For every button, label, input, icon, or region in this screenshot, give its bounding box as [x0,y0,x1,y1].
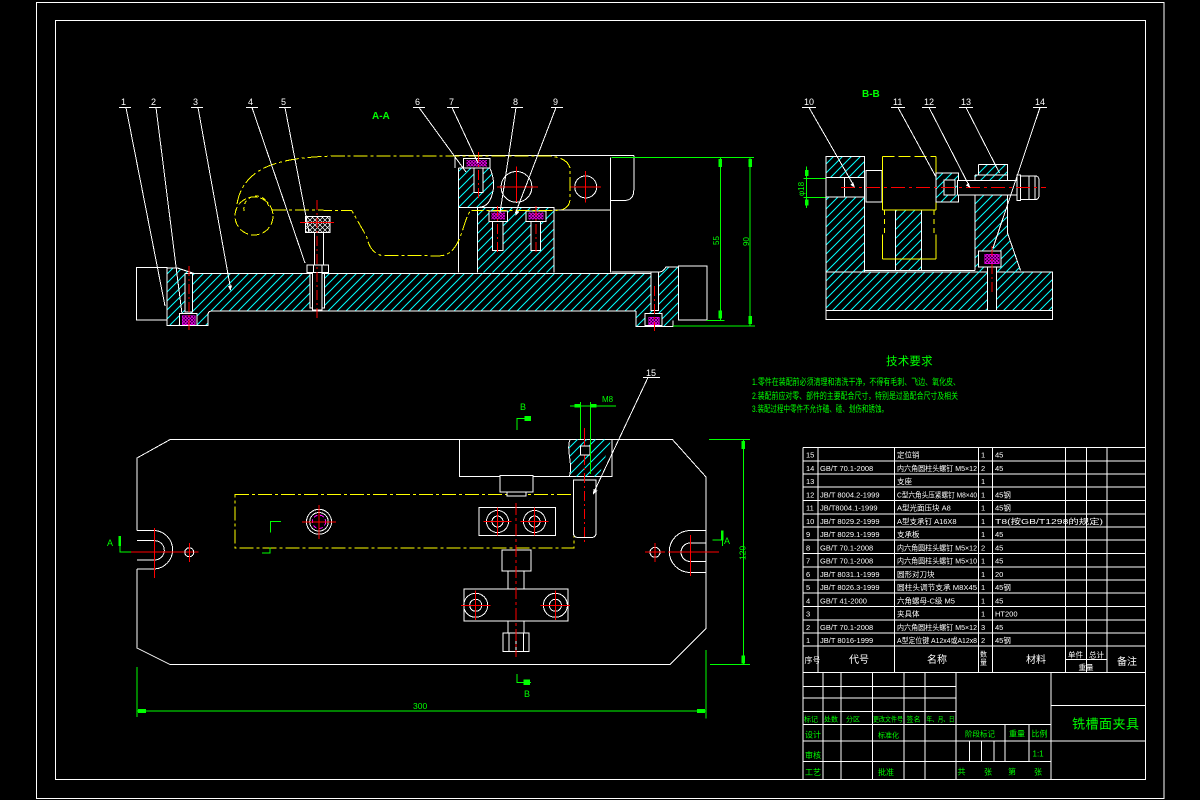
svg-text:重量: 重量 [1009,729,1025,739]
BOM row item 11 [806,503,1011,513]
svg-text:内六角圆柱头螺钉 M5×12: 内六角圆柱头螺钉 M5×12 [897,622,977,632]
svg-text:45钢: 45钢 [995,489,1011,499]
svg-text:JB/T8004.1-1999: JB/T8004.1-1999 [820,504,878,513]
svg-text:55: 55 [712,236,721,245]
svg-text:工艺: 工艺 [805,768,821,777]
callout 3 [191,97,232,291]
clamp screw column bar [574,480,597,538]
svg-text:签名: 签名 [907,715,921,724]
svg-text:单件: 单件 [1068,650,1084,660]
svg-text:重量: 重量 [1079,663,1095,672]
svg-text:10: 10 [804,97,814,107]
svg-text:B-B: B-B [862,89,880,100]
central support block outline [895,210,921,270]
BOM row item 13 [806,476,985,486]
svg-text:5: 5 [281,97,286,107]
svg-text:JB/T 8026.3-1999: JB/T 8026.3-1999 [820,583,880,592]
cap screw shank [474,168,483,193]
clamp centerline vertical [515,503,517,657]
column bolt 1 head [489,211,507,222]
svg-text:1: 1 [981,557,985,566]
knurled knob plan [503,633,529,652]
section B red trace [584,428,586,452]
column bar hole [580,446,590,455]
BOM row item 9 [806,529,1003,539]
cap screw head [464,158,490,168]
small bolt shank channel [988,267,997,310]
small bolt box right wall [978,251,1001,267]
locating circle 1 [501,172,532,203]
adjustable support centerline [316,200,318,318]
svg-text:内六角圆柱头螺钉 M5×12: 内六角圆柱头螺钉 M5×12 [897,463,977,473]
svg-text:2: 2 [151,97,156,107]
left foot bolt hole [185,273,192,312]
svg-text:A: A [724,536,730,546]
svg-text:2: 2 [981,464,985,473]
callout 11 [891,97,936,177]
svg-text:1: 1 [981,597,985,606]
callout 8 [500,97,523,213]
svg-text:JB/T 8031.1-1999: JB/T 8031.1-1999 [820,570,880,579]
support block hatch [458,168,493,207]
svg-text:GB/T 70.1-2008: GB/T 70.1-2008 [820,464,873,473]
right hex nut magenta [649,317,660,325]
svg-text:铣槽面夹具: 铣槽面夹具 [1072,717,1140,732]
svg-text:15: 15 [646,368,656,378]
svg-text:材料: 材料 [1026,653,1046,666]
right wall outline [975,165,1021,271]
hole divider line [844,178,846,198]
svg-text:120: 120 [738,546,748,560]
svg-text:序号: 序号 [805,655,821,665]
svg-text:支承板: 支承板 [897,529,920,539]
BOM grid vertical lines [803,448,1107,673]
right wall hatch [975,165,1021,272]
title block grid [803,673,1145,780]
svg-text:A-A: A-A [372,111,390,122]
svg-text:3.装配过程中零件不允许磕、碰、划伤和锈蚀。: 3.装配过程中零件不允许磕、碰、划伤和锈蚀。 [752,403,888,414]
lower stem [508,621,524,633]
svg-text:名称: 名称 [927,653,947,666]
nut on shaft hatched [936,173,959,202]
svg-text:2.装配前应对零、部件的主要配合尺寸，特别是过盈配合尺寸及相: 2.装配前应对零、部件的主要配合尺寸，特别是过盈配合尺寸及相关 [752,390,958,401]
TITLE BLOCK [803,673,1145,780]
clamp bar screw 1 [484,508,512,536]
adjustable support screw shank lower [313,272,322,310]
clamp plate top line [455,155,634,272]
svg-text:夹具体: 夹具体 [897,609,920,619]
right U-notch inner slot [681,543,706,562]
support block outline [458,168,610,273]
fixture base bottom band [826,310,1053,319]
svg-text:1: 1 [981,517,985,526]
svg-text:GB/T 70.1-2008: GB/T 70.1-2008 [820,544,873,553]
section A mark left [107,536,131,552]
dim M8 ext lines [580,402,590,474]
svg-text:A型定位键 A12x4或A12x8: A型定位键 A12x4或A12x8 [897,635,977,645]
svg-text:审核: 审核 [805,750,821,760]
svg-text:张: 张 [984,768,992,777]
svg-text:8: 8 [806,544,810,553]
left wall shaft hole [826,178,865,198]
svg-text:2: 2 [981,544,985,553]
adjustable support knob [306,217,331,233]
svg-text:圆柱头调节支承 M8X45: 圆柱头调节支承 M8X45 [897,582,977,592]
dim extension top green [612,157,754,159]
callout 13 [959,97,1000,173]
svg-text:12: 12 [924,97,934,107]
BOM TABLE [803,448,1145,673]
svg-text:14: 14 [1035,97,1045,107]
svg-text:JB/T 8016-1999: JB/T 8016-1999 [820,636,873,645]
svg-text:张: 张 [1034,768,1042,777]
clamp bar [479,508,556,536]
svg-text:1: 1 [806,636,810,645]
left notch centerlines [120,528,199,578]
svg-text:更改文件号: 更改文件号 [873,715,903,724]
callout 7 [447,97,478,163]
SECTION A-A VIEW [119,97,755,331]
svg-text:6: 6 [415,97,420,107]
left counterbore [180,313,198,325]
right small hole [645,543,665,562]
svg-text:第: 第 [1008,767,1016,777]
svg-text:2: 2 [806,623,810,632]
svg-text:技术要求: 技术要求 [886,355,933,368]
dim 120 ext lines [709,440,750,665]
section A mark right [713,531,730,546]
svg-text:A型支承钉 A16X8: A型支承钉 A16X8 [897,516,957,526]
title block left labels [805,730,899,778]
callout 10 [802,97,855,188]
svg-text:定位销: 定位销 [897,450,920,460]
dim 300 line [137,709,706,713]
slot bottom line [865,269,976,271]
svg-text:六角螺母-C级 M5: 六角螺母-C级 M5 [897,596,955,606]
svg-text:1: 1 [981,490,985,499]
svg-text:7: 7 [449,97,454,107]
svg-text:45: 45 [995,623,1003,632]
locating circle 2 [575,176,597,198]
svg-text:3: 3 [981,623,985,632]
svg-text:1:1: 1:1 [1033,750,1045,759]
left bolt centerline [188,266,190,331]
svg-text:1.零件在装配前必须清理和清洗干净，不得有毛刺、飞边、氧化皮: 1.零件在装配前必须清理和清洗干净，不得有毛刺、飞边、氧化皮、 [752,376,960,387]
svg-text:B: B [524,689,530,699]
svg-text:2: 2 [981,636,985,645]
callout 4 [246,97,305,263]
callout 14 [993,97,1047,248]
callout 5 [279,97,309,232]
right slot bolt channel [651,272,658,311]
TECH REQUIREMENTS [752,355,960,414]
left U-notch outer [137,531,173,575]
svg-text:6: 6 [806,570,810,579]
support column hatch [478,207,554,272]
BOM header row [803,660,1145,673]
dim line right 2 [748,158,752,326]
svg-text:1: 1 [981,610,985,619]
svg-text:年、月、日: 年、月、日 [927,715,955,724]
svg-text:总计: 总计 [1089,650,1105,660]
dim M8 line [570,404,616,408]
column bolt 2 shank [531,221,541,250]
nut inner box [944,180,955,195]
adjustable support shaft [314,233,323,265]
section bend bracket 1 [271,522,281,533]
dim line right 1 [719,158,723,321]
workpiece top profile [237,156,570,211]
svg-text:11: 11 [893,97,902,107]
fixture base hatch [826,272,1053,310]
left wall outline [826,157,865,272]
callout 12 [922,97,971,188]
svg-text:8: 8 [513,97,518,107]
svg-text:45: 45 [995,530,1003,539]
right notch centerlines [668,535,719,576]
workpiece yellow lower box BB [885,210,935,234]
title block middle labels [958,729,1048,777]
svg-text:JB/T 8029.1-1999: JB/T 8029.1-1999 [820,530,880,539]
BOM row item 10 [806,516,1104,526]
svg-text:12: 12 [806,490,814,499]
svg-text:比例: 比例 [1032,729,1048,739]
base plate outline [167,267,679,327]
svg-text:11: 11 [806,504,814,513]
svg-text:13: 13 [806,477,814,486]
svg-text:20: 20 [995,570,1003,579]
svg-text:1: 1 [981,530,985,539]
base plate hatch left [167,268,310,326]
svg-text:备注: 备注 [1117,655,1137,668]
svg-text:B: B [520,402,526,412]
BOM grid horizontal lines [803,448,1145,647]
screw boss below block [500,476,533,492]
leader 15 [593,368,660,495]
right wall bolt hole white band [975,180,1008,196]
svg-text:GB/T 70.1-2008: GB/T 70.1-2008 [820,623,873,632]
base plate hatch right foot [636,267,678,327]
BOM row item 6 [806,569,1003,579]
svg-text:内六角圆柱头螺钉 M5×12: 内六角圆柱头螺钉 M5×12 [897,543,977,553]
svg-text:标记: 标记 [804,715,818,724]
svg-text:JB/T 8004.2-1999: JB/T 8004.2-1999 [820,490,880,499]
svg-text:分区: 分区 [846,715,860,724]
BOM row item 8 [806,543,1003,553]
svg-text:M8: M8 [602,395,614,404]
section bend bracket 2 [262,547,270,553]
adjustable support screw channel [310,273,325,308]
BOM row item 15 [806,450,1003,460]
BOM row item 4 [806,596,1003,606]
workpiece outline yellow lobe circle [235,197,273,235]
callout 2 [149,97,182,314]
callout 9 [516,97,564,216]
clamp stem boss [502,550,531,571]
svg-text:1: 1 [981,570,985,579]
svg-text:阶段标记: 阶段标记 [965,729,995,739]
svg-text:1: 1 [121,97,126,107]
long bolt shank [957,180,1017,195]
shaft centerline BB [841,186,1046,188]
BOM row item 3 [806,609,1018,619]
svg-text:内六角圆柱头螺钉 M5×10: 内六角圆柱头螺钉 M5×10 [897,556,977,566]
BOM row item 7 [806,556,1003,566]
shaft collar [866,171,882,203]
workpiece footprint yellow [235,495,574,549]
svg-text:HT200: HT200 [995,610,1018,619]
svg-text:代号: 代号 [849,654,869,666]
svg-text:3: 3 [193,97,198,107]
svg-text:C型六角头压紧螺钉 M8×40: C型六角头压紧螺钉 M8×40 [897,489,977,499]
svg-text:设计: 设计 [805,730,821,740]
svg-text:φ18: φ18 [797,181,806,196]
svg-text:共: 共 [958,768,966,777]
svg-text:7: 7 [806,557,810,566]
column bolt 2 head [526,211,546,222]
callout 1 [119,97,165,306]
small bolt magenta head [985,254,1000,264]
knob red centerline horizontal [300,221,334,223]
cross bolt plate [464,589,568,621]
left U-notch inner slot [137,541,164,560]
svg-text:T8(按GB/T1298的规定): T8(按GB/T1298的规定) [995,516,1104,526]
svg-text:4: 4 [248,97,253,107]
svg-text:量: 量 [980,659,987,667]
svg-text:1: 1 [981,583,985,592]
workpiece bottom profile [272,210,472,256]
section B mark top [517,402,531,430]
svg-text:45: 45 [995,451,1003,460]
svg-text:300: 300 [413,701,427,711]
bolt washer [1017,175,1021,200]
dim 300 ext lines [137,650,706,718]
section B mark bottom [517,674,531,699]
title block labels row [804,715,955,724]
svg-text:4: 4 [806,597,810,606]
dim line left BB [805,166,809,208]
column bar centerline [584,455,586,545]
dim extension bottom green 1 [706,319,724,321]
svg-text:14: 14 [806,464,814,473]
svg-text:13: 13 [961,97,971,107]
svg-text:45钢: 45钢 [995,582,1011,592]
left foot block [137,268,167,321]
callout 6 [413,97,466,172]
BOM row item 2 [806,622,1003,632]
svg-text:45: 45 [995,464,1003,473]
svg-text:数: 数 [980,650,987,659]
small bolt centerline [991,246,993,293]
plan plate outline octagon [137,440,706,665]
svg-text:圆形对刀块: 圆形对刀块 [897,569,935,579]
BOM row item 12 [806,489,1011,499]
svg-text:JB/T 8029.2-1999: JB/T 8029.2-1999 [820,517,880,526]
BOM row item 5 [806,582,1011,592]
column bolt 1 shank [493,221,504,250]
left hex nut magenta [182,316,195,325]
PLAN VIEW [107,368,750,718]
BOM row item 1 [806,635,1011,645]
right foot block [678,266,707,320]
svg-text:A: A [107,538,113,548]
svg-text:GB/T 70.1-2008: GB/T 70.1-2008 [820,557,873,566]
cap screw centerline [478,152,480,198]
base plate hatch middle [325,273,651,311]
svg-text:9: 9 [806,530,810,539]
svg-text:批准: 批准 [878,767,894,777]
bolt hex head [1020,176,1039,200]
svg-text:A型光面压块 A8: A型光面压块 A8 [897,503,951,513]
svg-text:1: 1 [981,477,985,486]
fixture base outline [826,272,1053,310]
svg-text:45: 45 [995,557,1003,566]
svg-text:GB/T 41-2000: GB/T 41-2000 [820,597,867,606]
workpiece yellow box BB [882,156,936,158]
adjustable support hex nut [307,265,328,272]
svg-text:处数: 处数 [824,715,838,724]
svg-text:45: 45 [995,544,1003,553]
cross plate bolt 2 [541,591,571,621]
svg-text:3: 3 [806,610,810,619]
right bolt centerline [654,286,656,331]
svg-text:9: 9 [553,97,558,107]
svg-text:90: 90 [742,237,751,246]
SECTION B-B VIEW [797,89,1053,320]
svg-text:45钢: 45钢 [995,635,1011,645]
svg-text:10: 10 [806,517,814,526]
clamp bar screw 2 [521,508,549,536]
BOM row item 14 [806,463,1003,473]
cutter block circle [302,505,336,539]
broken-out section hatch [569,440,612,477]
svg-text:标准化: 标准化 [878,731,899,740]
svg-text:45: 45 [995,597,1003,606]
dim ext lines left BB [803,178,825,197]
svg-text:1: 1 [981,451,985,460]
right U-notch outer [669,531,706,573]
central support block hatch [895,210,921,270]
dim 120 line [742,440,746,665]
svg-text:15: 15 [806,451,814,460]
top support block [460,440,613,477]
broken-out section boundary [569,440,571,477]
left wall hatch [826,157,865,272]
svg-text:5: 5 [806,583,810,592]
right counterbore [645,314,662,326]
left small hole [185,543,194,562]
svg-text:1: 1 [981,504,985,513]
svg-text:45钢: 45钢 [995,503,1011,513]
dim extension bottom green 2 [673,325,755,327]
cross plate bolt 1 [461,591,491,621]
clamp stem [508,571,524,589]
svg-text:支座: 支座 [897,476,912,486]
